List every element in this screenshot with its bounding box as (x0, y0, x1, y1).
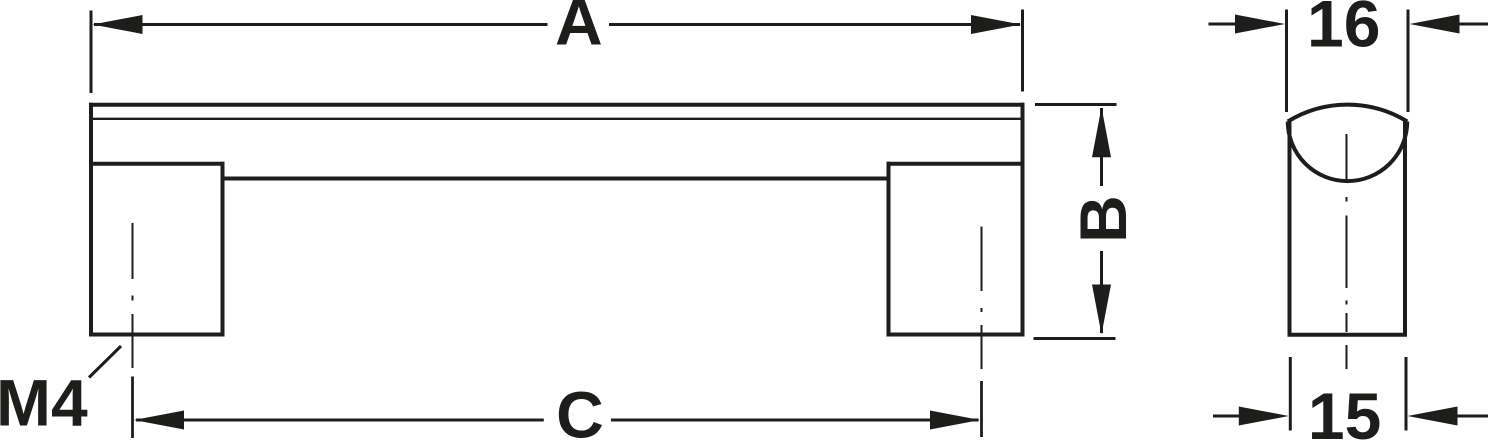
svg-text:C: C (556, 378, 604, 440)
svg-text:15: 15 (1308, 379, 1381, 440)
svg-text:B: B (1066, 195, 1140, 243)
svg-text:16: 16 (1307, 0, 1380, 61)
svg-text:M4: M4 (0, 366, 88, 440)
svg-text:A: A (555, 0, 603, 59)
